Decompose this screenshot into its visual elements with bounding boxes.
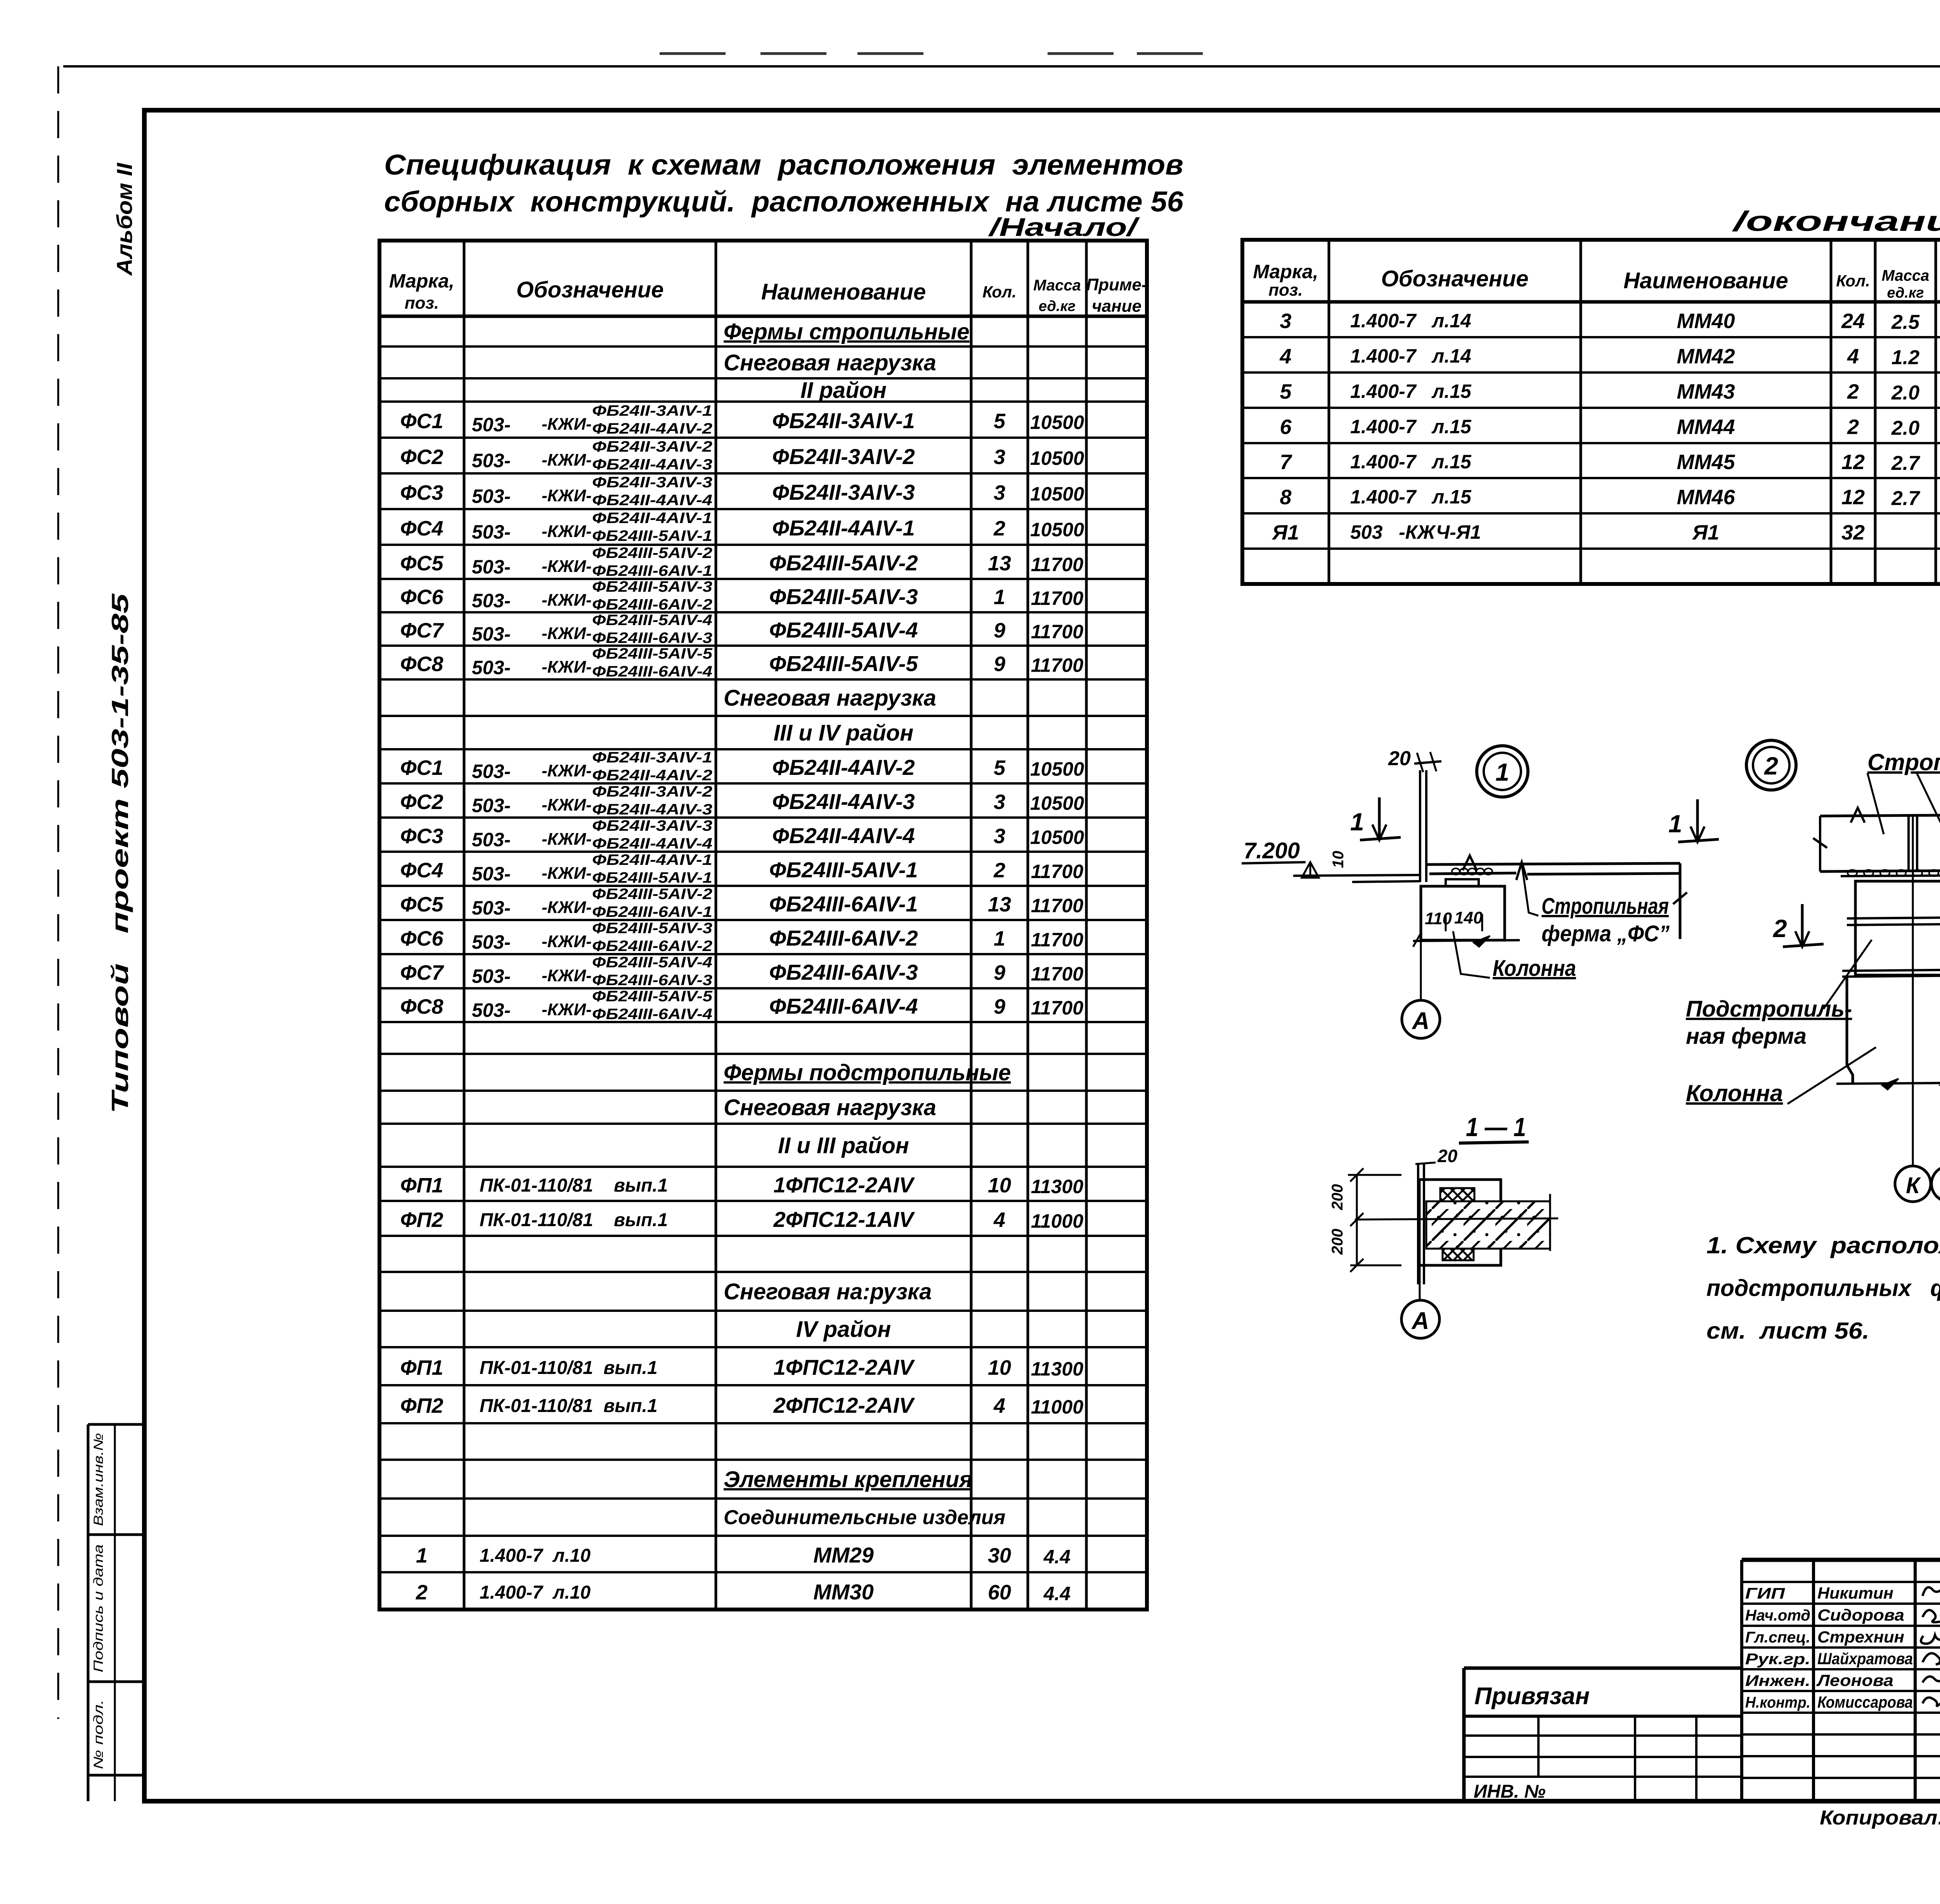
svg-text:ФБ24III-5АIV-5: ФБ24III-5АIV-5 — [592, 988, 713, 1005]
svg-text:1 — 1: 1 — 1 — [1466, 1112, 1526, 1142]
svg-text:1: 1 — [994, 927, 1005, 950]
svg-text:ФБ24III-5АIV-4: ФБ24III-5АIV-4 — [592, 954, 712, 971]
svg-text:ММ46: ММ46 — [1677, 486, 1735, 509]
svg-text:ФБ24II-4АIV-2: ФБ24II-4АIV-2 — [592, 767, 712, 784]
svg-text:503-: 503- — [472, 829, 511, 851]
svg-text:11300: 11300 — [1031, 1358, 1084, 1380]
svg-text:ФБ24III-6АIV-3: ФБ24III-6АIV-3 — [769, 960, 918, 984]
svg-text:ФБ24II-4АIV-1: ФБ24II-4АIV-1 — [592, 510, 712, 527]
svg-text:ПК-01-110/81 вып.1: ПК-01-110/81 вып.1 — [480, 1358, 658, 1378]
svg-text:10500: 10500 — [1030, 758, 1084, 780]
svg-text:503 -КЖЧ-Я1: 503 -КЖЧ-Я1 — [1350, 521, 1481, 543]
svg-text:11700: 11700 — [1031, 861, 1084, 882]
svg-text:1ФПС12-2АIV: 1ФПС12-2АIV — [773, 1173, 915, 1197]
svg-text:11700: 11700 — [1031, 621, 1084, 643]
svg-text:Стрехнин: Стрехнин — [1817, 1628, 1904, 1646]
svg-text:ММ29: ММ29 — [813, 1543, 874, 1567]
svg-text:200: 200 — [1329, 1184, 1346, 1211]
svg-text:-КЖИ-: -КЖИ- — [542, 966, 592, 985]
svg-text:5: 5 — [1280, 380, 1292, 404]
svg-text:№ подл.: № подл. — [91, 1700, 106, 1769]
svg-text:Спецификация к схемам распол: Спецификация к схемам расположения элеме… — [384, 149, 1183, 181]
svg-text:ФС7: ФС7 — [400, 961, 444, 984]
svg-text:ПК-01-110/81 вып.1: ПК-01-110/81 вып.1 — [480, 1175, 668, 1196]
svg-text:-КЖИ-: -КЖИ- — [542, 486, 592, 505]
svg-text:503-: 503- — [472, 761, 511, 782]
svg-text:ФБ24II-3АIV-2: ФБ24II-3АIV-2 — [592, 438, 712, 455]
svg-text:Обозначение: Обозначение — [1381, 266, 1529, 291]
svg-text:ФБ24III-6АIV-2: ФБ24III-6АIV-2 — [769, 926, 918, 950]
svg-text:3: 3 — [994, 790, 1005, 814]
svg-text:1: 1 — [416, 1544, 428, 1567]
svg-text:Гл.спец.: Гл.спец. — [1745, 1629, 1810, 1646]
svg-text:503-: 503- — [472, 414, 511, 436]
svg-text:Снеговая нагрузка: Снеговая нагрузка — [724, 1095, 936, 1120]
svg-text:Фермы стропильные: Фермы стропильные — [724, 319, 970, 344]
svg-text:ФС1: ФС1 — [400, 410, 443, 433]
svg-text:ФБ24III-5АIV-4: ФБ24III-5АIV-4 — [769, 618, 918, 642]
svg-text:ФБ24II-4АIV-2: ФБ24II-4АIV-2 — [592, 421, 712, 437]
svg-text:ед.кг: ед.кг — [1039, 298, 1076, 314]
svg-text:ФП2: ФП2 — [400, 1394, 443, 1417]
svg-text:ед.кг: ед.кг — [1887, 285, 1924, 301]
svg-text:10500: 10500 — [1030, 519, 1084, 541]
svg-text:2.7: 2.7 — [1891, 487, 1920, 510]
svg-text:ММ43: ММ43 — [1677, 380, 1735, 404]
svg-text:3: 3 — [994, 481, 1005, 504]
svg-text:Приме-: Приме- — [1086, 275, 1147, 295]
svg-text:ФС1: ФС1 — [400, 756, 443, 780]
svg-text:11700: 11700 — [1031, 655, 1084, 676]
svg-text:11300: 11300 — [1031, 1176, 1084, 1197]
svg-text:1.400-7 л.15: 1.400-7 л.15 — [1350, 451, 1472, 473]
svg-text:11700: 11700 — [1031, 895, 1084, 916]
svg-text:503-: 503- — [472, 556, 511, 578]
svg-text:503-: 503- — [472, 485, 511, 507]
svg-text:Фермы подстропильные: Фермы подстропильные — [724, 1060, 1011, 1085]
svg-text:ФБ24II-4АIV-1: ФБ24II-4АIV-1 — [592, 852, 712, 868]
svg-text:503-: 503- — [472, 965, 511, 987]
svg-text:11700: 11700 — [1031, 929, 1084, 951]
svg-text:-КЖИ-: -КЖИ- — [542, 795, 592, 814]
svg-text:Обозначение: Обозначение — [516, 277, 664, 302]
svg-text:3: 3 — [994, 445, 1005, 469]
svg-text:ФБ24III-5АIV-2: ФБ24III-5АIV-2 — [769, 551, 918, 575]
svg-text:ФБ24III-6АIV-1: ФБ24III-6АIV-1 — [769, 892, 918, 916]
svg-text:ФБ24II-4АIV-4: ФБ24II-4АIV-4 — [772, 823, 915, 848]
svg-text:-КЖИ-: -КЖИ- — [542, 415, 592, 434]
svg-text:ФС3: ФС3 — [400, 825, 443, 848]
svg-text:Комиссарова: Комиссарова — [1817, 1693, 1913, 1711]
svg-text:Наименование: Наименование — [761, 279, 926, 305]
svg-text:Масса: Масса — [1033, 277, 1081, 294]
svg-text:10500: 10500 — [1030, 826, 1084, 848]
svg-text:503-: 503- — [472, 623, 511, 645]
svg-text:1.400-7 л.15: 1.400-7 л.15 — [1350, 381, 1472, 402]
svg-text:3: 3 — [1280, 310, 1291, 333]
svg-text:Я1: Я1 — [1271, 521, 1299, 544]
svg-text:-КЖИ-: -КЖИ- — [542, 658, 592, 677]
svg-text:140: 140 — [1454, 908, 1483, 927]
svg-text:ММ45: ММ45 — [1677, 450, 1735, 474]
svg-text:503-: 503- — [472, 450, 511, 471]
svg-text:1.400-7 л.14: 1.400-7 л.14 — [1350, 345, 1471, 367]
svg-text:/окончание/: /окончание/ — [1732, 206, 1940, 237]
svg-text:Подпись и дата: Подпись и дата — [91, 1544, 106, 1672]
svg-text:1: 1 — [1495, 758, 1509, 786]
svg-text:12: 12 — [1841, 486, 1865, 509]
svg-text:10500: 10500 — [1030, 447, 1084, 469]
svg-text:ФС5: ФС5 — [400, 552, 443, 575]
svg-text:32: 32 — [1841, 521, 1865, 544]
svg-text:Элементы крепления: Элементы крепления — [724, 1467, 972, 1492]
svg-text:ФП1: ФП1 — [400, 1174, 443, 1197]
svg-text:2.7: 2.7 — [1891, 452, 1920, 475]
svg-text:-КЖИ-: -КЖИ- — [542, 591, 592, 610]
svg-text:ФС6: ФС6 — [400, 927, 443, 950]
svg-text:-КЖИ-: -КЖИ- — [542, 864, 592, 883]
svg-text:ФБ24III-6АIV-2: ФБ24III-6АIV-2 — [592, 596, 712, 613]
svg-text:ММ30: ММ30 — [813, 1580, 874, 1604]
svg-text:1.400-7 л.10: 1.400-7 л.10 — [480, 1582, 591, 1603]
svg-text:12: 12 — [1841, 450, 1865, 474]
svg-text:-КЖИ-: -КЖИ- — [542, 557, 592, 576]
svg-text:ФП2: ФП2 — [400, 1208, 443, 1232]
svg-text:Колонна: Колонна — [1686, 1080, 1783, 1106]
svg-text:Леонова: Леонова — [1816, 1671, 1893, 1689]
svg-text:10500: 10500 — [1030, 412, 1084, 433]
svg-text:ФБ24III-6АIV-3: ФБ24III-6АIV-3 — [592, 972, 712, 989]
svg-text:ФС4: ФС4 — [400, 517, 443, 540]
svg-text:ММ44: ММ44 — [1677, 416, 1735, 439]
svg-text:2ФПС12-2АIV: 2ФПС12-2АIV — [773, 1393, 915, 1417]
svg-text:Снеговая на:рузка: Снеговая на:рузка — [724, 1279, 932, 1304]
svg-text:Наименование: Наименование — [1623, 268, 1788, 293]
svg-text:III и IV район: III и IV район — [774, 720, 914, 745]
svg-text:ФБ24III-5АIV-5: ФБ24III-5АIV-5 — [769, 651, 918, 676]
svg-text:4: 4 — [1847, 345, 1859, 368]
svg-text:110: 110 — [1425, 909, 1452, 928]
svg-text:ФБ24III-5АIV-1: ФБ24III-5АIV-1 — [592, 528, 712, 544]
svg-text:А: А — [1411, 1308, 1429, 1334]
svg-text:Н.контр.: Н.контр. — [1745, 1694, 1810, 1711]
svg-text:ная ферма: ная ферма — [1686, 1024, 1807, 1049]
svg-text:чание: чание — [1092, 296, 1141, 315]
svg-text:1.400-7 л.15: 1.400-7 л.15 — [1350, 486, 1472, 508]
svg-text:Стропильные: Стропильные — [1867, 749, 1940, 775]
svg-text:-КЖИ-: -КЖИ- — [542, 1000, 592, 1019]
svg-text:Кол.: Кол. — [1836, 272, 1870, 290]
svg-text:ФБ24II-3АIV-1: ФБ24II-3АIV-1 — [592, 403, 712, 419]
svg-text:ФБ24II-4АIV-3: ФБ24II-4АIV-3 — [592, 456, 712, 473]
svg-text:Привязан: Привязан — [1474, 1683, 1590, 1710]
svg-text:поз.: поз. — [405, 294, 439, 313]
svg-text:ФБ24III-5АIV-1: ФБ24III-5АIV-1 — [592, 870, 712, 886]
svg-text:ФС6: ФС6 — [400, 586, 443, 609]
svg-text:3: 3 — [994, 825, 1005, 848]
svg-text:-КЖИ-: -КЖИ- — [542, 932, 592, 951]
svg-text:4.4: 4.4 — [1043, 1583, 1071, 1604]
svg-text:2: 2 — [1764, 752, 1778, 780]
svg-text:ФС2: ФС2 — [400, 445, 443, 469]
svg-text:30: 30 — [988, 1544, 1011, 1567]
svg-text:2: 2 — [1847, 380, 1859, 404]
svg-text:9: 9 — [994, 995, 1005, 1019]
svg-text:503-: 503- — [472, 521, 511, 543]
svg-text:Шайхратова: Шайхратова — [1817, 1649, 1913, 1668]
svg-text:Взам.инв.№: Взам.инв.№ — [91, 1433, 106, 1526]
svg-text:А: А — [1412, 1008, 1430, 1034]
svg-text:Я1: Я1 — [1692, 521, 1719, 544]
svg-text:-КЖИ-: -КЖИ- — [542, 522, 592, 541]
svg-text:1. Схему расположения элемен: 1. Схему расположения элементов стропиль… — [1706, 1232, 1940, 1258]
svg-text:20: 20 — [1388, 747, 1411, 770]
svg-text:Сидорова: Сидорова — [1817, 1606, 1904, 1624]
svg-text:Марка,: Марка, — [389, 270, 454, 292]
svg-text:Соединительсные изделия: Соединительсные изделия — [724, 1506, 1005, 1529]
svg-text:Колонна: Колонна — [1493, 956, 1576, 981]
svg-text:-КЖИ-: -КЖИ- — [542, 624, 592, 643]
svg-text:ФБ24III-5АIV-1: ФБ24III-5АIV-1 — [769, 858, 918, 882]
svg-text:11700: 11700 — [1031, 997, 1084, 1019]
svg-text:-КЖИ-: -КЖИ- — [542, 830, 592, 849]
svg-text:ФС7: ФС7 — [400, 619, 444, 642]
svg-text:503-: 503- — [472, 1000, 511, 1021]
svg-text:подстропильных ферм и замар: подстропильных ферм и замаркированные уз… — [1706, 1275, 1940, 1301]
svg-text:ММ40: ММ40 — [1677, 310, 1735, 333]
svg-text:ФБ24III-5АIV-2: ФБ24III-5АIV-2 — [592, 886, 712, 903]
svg-text:5: 5 — [994, 410, 1006, 433]
svg-text:ФБ24III-6АIV-4: ФБ24III-6АIV-4 — [592, 664, 712, 680]
svg-text:-КЖИ-: -КЖИ- — [542, 898, 592, 917]
svg-text:II район: II район — [800, 378, 887, 403]
svg-text:4: 4 — [993, 1394, 1005, 1417]
svg-text:4: 4 — [1279, 345, 1291, 368]
svg-text:ФБ24II-3АIV-2: ФБ24II-3АIV-2 — [772, 444, 915, 469]
svg-text:10500: 10500 — [1030, 483, 1084, 505]
svg-text:2.0: 2.0 — [1891, 382, 1919, 404]
svg-text:поз.: поз. — [1268, 281, 1303, 300]
svg-text:ФБ24II-4АIV-4: ФБ24II-4АIV-4 — [592, 835, 712, 852]
svg-text:5: 5 — [994, 756, 1006, 780]
svg-text:2: 2 — [993, 517, 1005, 540]
svg-text:см. лист 56.: см. лист 56. — [1706, 1318, 1869, 1344]
svg-text:2.0: 2.0 — [1891, 417, 1919, 440]
svg-text:10500: 10500 — [1030, 792, 1084, 814]
svg-text:ПК-01-110/81 вып.1: ПК-01-110/81 вып.1 — [480, 1210, 668, 1230]
svg-text:1.400-7 л.15: 1.400-7 л.15 — [1350, 416, 1472, 438]
svg-text:4.4: 4.4 — [1043, 1546, 1071, 1568]
svg-text:11700: 11700 — [1031, 554, 1084, 575]
svg-text:ФБ24II-3АIV-1: ФБ24II-3АIV-1 — [592, 749, 712, 766]
svg-text:1.400-7 л.14: 1.400-7 л.14 — [1350, 310, 1471, 332]
svg-text:ММ42: ММ42 — [1677, 345, 1735, 368]
svg-text:9: 9 — [994, 653, 1005, 676]
svg-text:ФБ24III-5АIV-3: ФБ24III-5АIV-3 — [769, 584, 918, 609]
svg-text:8: 8 — [1280, 486, 1291, 509]
svg-text:4: 4 — [993, 1208, 1005, 1232]
svg-text:503-: 503- — [472, 657, 511, 679]
svg-text:2: 2 — [1847, 416, 1859, 439]
svg-text:Нач.отд: Нач.отд — [1745, 1607, 1810, 1624]
svg-text:ФБ24III-5АIV-4: ФБ24III-5АIV-4 — [592, 612, 712, 629]
svg-text:503-: 503- — [472, 590, 511, 612]
svg-text:10: 10 — [988, 1174, 1011, 1197]
svg-text:1: 1 — [1668, 810, 1682, 838]
svg-text:ФБ24III-6АIV-3: ФБ24III-6АIV-3 — [592, 630, 712, 646]
svg-text:IV район: IV район — [796, 1317, 891, 1342]
svg-text:13: 13 — [988, 552, 1011, 575]
svg-text:ФБ24III-6АIV-1: ФБ24III-6АIV-1 — [592, 563, 712, 579]
svg-text:200: 200 — [1329, 1229, 1346, 1255]
svg-text:II и III район: II и III район — [778, 1133, 909, 1158]
svg-text:Снеговая нагрузка: Снеговая нагрузка — [724, 685, 936, 710]
svg-text:503-: 503- — [472, 863, 511, 885]
svg-text:1ФПС12-2АIV: 1ФПС12-2АIV — [773, 1355, 915, 1379]
svg-text:2: 2 — [1773, 915, 1787, 942]
svg-text:11000: 11000 — [1031, 1396, 1084, 1418]
svg-text:ФБ24II-4АIV-1: ФБ24II-4АIV-1 — [772, 516, 915, 540]
svg-text:ФБ24III-6АIV-2: ФБ24III-6АIV-2 — [592, 938, 712, 955]
svg-text:11000: 11000 — [1031, 1210, 1084, 1232]
svg-text:ферма „ФС”: ферма „ФС” — [1542, 921, 1670, 946]
svg-text:7: 7 — [1280, 450, 1292, 474]
svg-text:Кол.: Кол. — [982, 282, 1017, 301]
svg-text:ФБ24II-4АIV-3: ФБ24II-4АIV-3 — [592, 801, 712, 818]
svg-text:11700: 11700 — [1031, 587, 1084, 609]
svg-text:ФС2: ФС2 — [400, 790, 443, 814]
svg-text:2: 2 — [416, 1581, 428, 1604]
svg-text:ФП1: ФП1 — [400, 1356, 443, 1379]
svg-text:ФБ24III-6АIV-4: ФБ24III-6АIV-4 — [592, 1006, 712, 1023]
svg-text:ФБ24II-3АIV-2: ФБ24II-3АIV-2 — [592, 783, 712, 800]
svg-text:20: 20 — [1437, 1146, 1458, 1166]
svg-text:13: 13 — [988, 893, 1011, 916]
svg-text:ФБ24II-4АIV-3: ФБ24II-4АIV-3 — [772, 789, 915, 814]
svg-text:ФС8: ФС8 — [400, 995, 443, 1019]
svg-text:ФС5: ФС5 — [400, 893, 443, 916]
svg-text:2: 2 — [993, 859, 1005, 882]
svg-text:6: 6 — [1280, 416, 1292, 439]
svg-text:11700: 11700 — [1031, 963, 1084, 985]
svg-text:9: 9 — [994, 619, 1005, 642]
svg-text:ФС8: ФС8 — [400, 653, 443, 676]
svg-text:2ФПС12-1АIV: 2ФПС12-1АIV — [773, 1207, 915, 1232]
svg-text:ФБ24II-4АIV-2: ФБ24II-4АIV-2 — [772, 755, 915, 780]
svg-text:Рук.гр.: Рук.гр. — [1745, 1651, 1810, 1668]
svg-text:К: К — [1906, 1173, 1921, 1198]
svg-text:ФБ24II-3АIV-3: ФБ24II-3АIV-3 — [772, 480, 915, 504]
svg-text:ФБ24III-5АIV-2: ФБ24III-5АIV-2 — [592, 545, 712, 561]
svg-text:Типовой проект 503-1-35-85: Типовой проект 503-1-35-85 — [107, 593, 133, 1114]
svg-text:Никитин: Никитин — [1817, 1584, 1893, 1602]
svg-text:10: 10 — [988, 1356, 1011, 1379]
svg-text:Альбом II: Альбом II — [112, 162, 137, 276]
svg-text:2.5: 2.5 — [1891, 311, 1920, 334]
svg-text:/Начало/: /Начало/ — [988, 213, 1140, 241]
svg-text:1.2: 1.2 — [1891, 346, 1919, 369]
svg-text:ГИП: ГИП — [1745, 1585, 1786, 1602]
svg-text:ИНВ. №: ИНВ. № — [1474, 1781, 1546, 1802]
svg-text:Масса: Масса — [1882, 267, 1930, 284]
svg-text:7.200: 7.200 — [1244, 838, 1300, 863]
svg-text:503-: 503- — [472, 795, 511, 816]
svg-text:-КЖИ-: -КЖИ- — [542, 761, 592, 780]
svg-text:1: 1 — [994, 586, 1005, 609]
svg-text:60: 60 — [988, 1581, 1011, 1604]
svg-text:ФС4: ФС4 — [400, 859, 443, 882]
svg-text:503-: 503- — [472, 931, 511, 953]
svg-text:ФБ24III-5АIV-3: ФБ24III-5АIV-3 — [592, 579, 712, 595]
svg-text:9: 9 — [994, 961, 1005, 984]
svg-text:10: 10 — [1330, 851, 1347, 868]
svg-text:1: 1 — [1350, 808, 1364, 836]
svg-text:24: 24 — [1841, 310, 1865, 333]
svg-text:-КЖИ-: -КЖИ- — [542, 450, 592, 470]
svg-text:ФБ24III-5АIV-5: ФБ24III-5АIV-5 — [592, 646, 713, 662]
svg-text:ФБ24II-3АIV-3: ФБ24II-3АIV-3 — [592, 474, 712, 491]
svg-text:Снеговая нагрузка: Снеговая нагрузка — [724, 350, 936, 375]
svg-text:Подстропиль-: Подстропиль- — [1686, 996, 1852, 1022]
svg-text:ПК-01-110/81 вып.1: ПК-01-110/81 вып.1 — [480, 1396, 658, 1416]
svg-text:ФБ24III-6АIV-1: ФБ24III-6АIV-1 — [592, 904, 712, 920]
svg-text:503-: 503- — [472, 897, 511, 919]
svg-text:1.400-7 л.10: 1.400-7 л.10 — [480, 1545, 591, 1566]
svg-text:Стропильная: Стропильная — [1542, 894, 1669, 919]
svg-text:ФБ24II-3АIV-3: ФБ24II-3АIV-3 — [592, 818, 712, 834]
svg-text:ФБ24II-3АIV-1: ФБ24II-3АIV-1 — [772, 409, 915, 433]
svg-text:Марка,: Марка, — [1253, 261, 1318, 282]
svg-text:Копировал: Сунтеева: Копировал: Сунтеева — [1820, 1807, 1940, 1829]
svg-text:Инжен.: Инжен. — [1745, 1672, 1810, 1689]
svg-text:ФБ24III-6АIV-4: ФБ24III-6АIV-4 — [769, 994, 918, 1019]
svg-text:ФБ24II-4АIV-4: ФБ24II-4АIV-4 — [592, 492, 712, 509]
svg-text:ФС3: ФС3 — [400, 481, 443, 504]
svg-text:ФБ24III-5АIV-3: ФБ24III-5АIV-3 — [592, 920, 712, 937]
